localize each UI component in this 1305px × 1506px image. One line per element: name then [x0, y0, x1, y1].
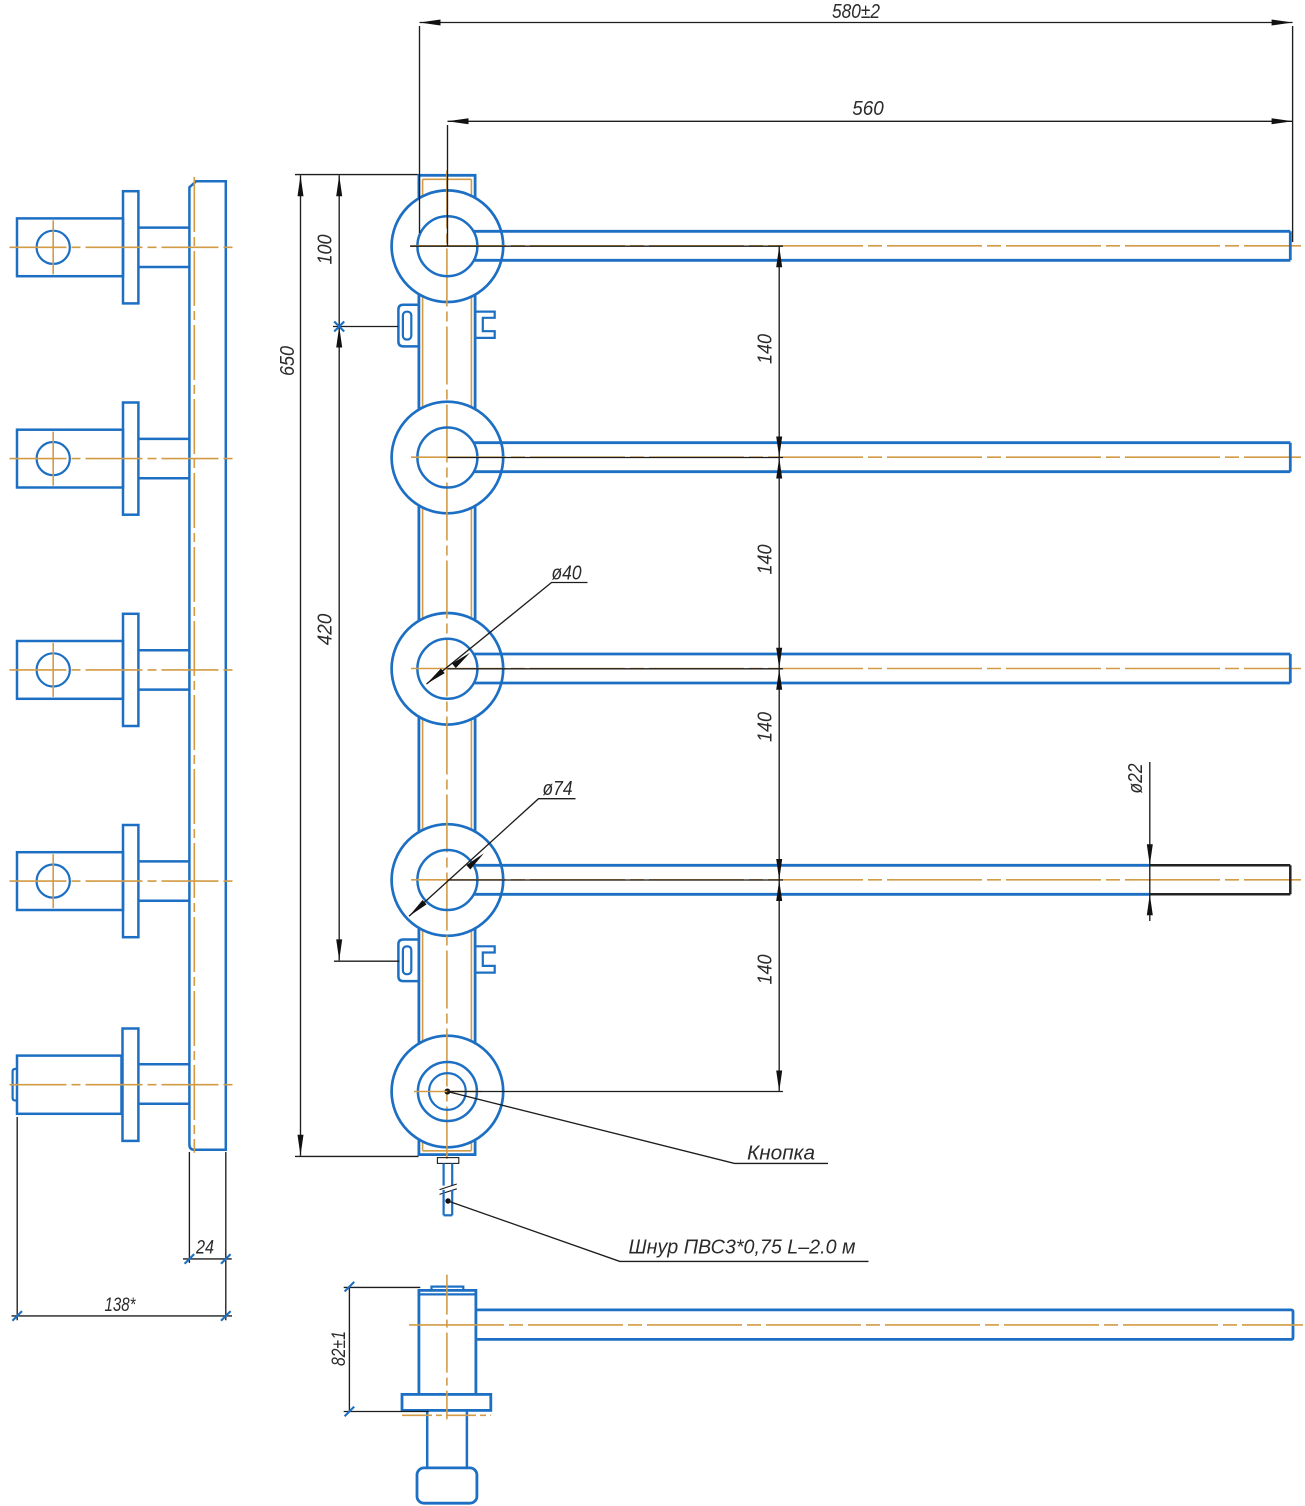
arm 1 tube	[474, 231, 1291, 260]
side view wall profile centerline	[193, 177, 195, 1153]
dimension 82±1	[329, 1282, 429, 1416]
pivot 2 outer disc	[392, 402, 504, 514]
svg-text:560: 560	[852, 98, 884, 120]
wall clip left 2	[398, 940, 417, 982]
svg-text:140: 140	[755, 955, 777, 985]
arm 2 tube	[474, 443, 1291, 472]
side view arm 4 housing	[17, 852, 123, 910]
cord break symbol	[440, 1184, 457, 1194]
side view arm 2 flange	[123, 403, 138, 515]
arm 2 centerline	[411, 456, 1301, 458]
bottom view flange centerline	[402, 1414, 491, 1416]
svg-text:Кнопка: Кнопка	[747, 1143, 815, 1165]
side view arm 1 housing	[17, 218, 123, 276]
arm 4 centerline	[411, 879, 1301, 881]
side view arm 4 flange	[123, 825, 138, 937]
side view arm 3 housing	[17, 641, 123, 699]
svg-text:650: 650	[277, 346, 299, 376]
cord leader dot	[445, 1198, 450, 1203]
pivot 5 button circle	[429, 1073, 466, 1110]
dimension chain 140	[410, 246, 783, 1091]
side view arm 2 housing	[17, 430, 123, 488]
dimension 560	[448, 98, 1293, 246]
side view arm 3 stem	[138, 650, 189, 689]
svg-text:420: 420	[315, 614, 337, 646]
arm 4 tube	[474, 865, 1151, 894]
bottom view flange	[402, 1394, 491, 1410]
svg-text:ø74: ø74	[543, 778, 573, 800]
pivot 5 inner circle	[418, 1062, 477, 1121]
side view arm 2 centerline	[10, 458, 236, 460]
svg-text:140: 140	[755, 712, 777, 742]
power cord upper	[444, 1163, 453, 1185]
arm 3 tube	[474, 654, 1291, 683]
side view arm 3 flange	[123, 614, 138, 726]
wall clip right 1	[476, 312, 495, 338]
label Шнур ПВС3*0,75 L-2.0 м	[448, 1201, 869, 1261]
pivot 3 inner circle	[417, 639, 477, 699]
pivot 5 crosshair	[414, 1091, 482, 1093]
dimension 420	[315, 327, 400, 962]
side view arm 1 centerline	[10, 246, 236, 248]
dimension 580±2	[420, 1, 1293, 242]
svg-text:140: 140	[755, 334, 777, 364]
bottom view arm tube	[476, 1310, 1293, 1340]
side view arm 4 stem	[138, 861, 189, 900]
arm 4 tube end section	[1150, 865, 1290, 894]
side view arm 4 centerline	[10, 880, 236, 882]
pivot 4 outer disc	[392, 824, 504, 936]
dimension ø74	[407, 778, 576, 918]
side view arm 5 centerline	[10, 1084, 236, 1086]
svg-text:ø40: ø40	[552, 563, 582, 585]
junction marker	[334, 322, 344, 332]
svg-text:24: 24	[195, 1237, 214, 1258]
side view arm 5 housing	[13, 1056, 122, 1114]
side view arm 5 stem	[138, 1064, 189, 1104]
pivot 1 inner circle	[417, 216, 477, 276]
side view arm 5 flange	[123, 1029, 139, 1141]
label Кнопка	[447, 1092, 828, 1165]
cord gland	[437, 1158, 458, 1164]
dimension 138*	[12, 1117, 233, 1321]
dimension 650	[277, 175, 419, 1157]
pivot 2 inner circle	[417, 428, 477, 488]
bottom view arm centerline	[409, 1324, 1303, 1326]
pivot 4 inner circle	[417, 850, 477, 910]
svg-text:138*: 138*	[105, 1295, 136, 1316]
svg-text:ø22: ø22	[1125, 764, 1147, 794]
side view arm 1 flange	[123, 191, 138, 303]
bottom view pivot cylinder	[419, 1287, 476, 1394]
svg-text:Шнур ПВС3*0,75 L–2.0 м: Шнур ПВС3*0,75 L–2.0 м	[629, 1237, 856, 1259]
side view arm 2 stem	[138, 439, 189, 478]
arm 3 centerline	[411, 668, 1301, 670]
svg-text:580±2: 580±2	[832, 1, 880, 23]
dimension 100	[315, 175, 343, 326]
dimension ø22	[1125, 762, 1153, 921]
pivot 5 outer disc	[392, 1036, 504, 1148]
arm 1 centerline	[411, 245, 1301, 247]
main post centerline	[446, 171, 448, 1160]
bottom view mount block	[417, 1468, 477, 1503]
svg-text:82±1: 82±1	[329, 1331, 350, 1366]
bottom view stem	[427, 1410, 467, 1467]
svg-text:140: 140	[755, 545, 777, 575]
pivot 1 outer disc	[392, 190, 504, 302]
wall clip left 1	[398, 305, 417, 347]
main post tube	[419, 175, 475, 1154]
dimension ø40	[425, 563, 588, 687]
side view arm 3 centerline	[10, 669, 236, 671]
dimension 24	[183, 1152, 232, 1320]
svg-text:100: 100	[315, 235, 337, 265]
wall clip right 2	[476, 946, 495, 972]
bottom view vertical centerline	[446, 1275, 448, 1420]
power cord lower	[444, 1190, 453, 1216]
pivot 5 center dot	[444, 1089, 450, 1095]
side view arm 1 stem	[138, 228, 189, 267]
pivot 3 outer disc	[392, 613, 504, 725]
side view wall profile	[189, 181, 225, 1150]
